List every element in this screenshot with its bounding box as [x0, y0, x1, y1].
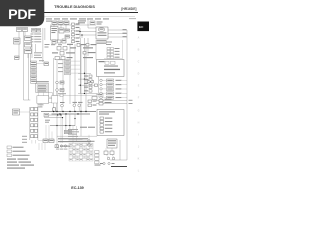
svg-text:A: A — [138, 37, 140, 40]
svg-text:H: H — [138, 122, 140, 125]
svg-text:B: B — [138, 49, 140, 52]
svg-text:G: G — [138, 110, 140, 113]
svg-text:TROUBLE DIAGNOSIS: TROUBLE DIAGNOSIS — [54, 5, 95, 9]
svg-text:PDF: PDF — [8, 7, 36, 23]
svg-text:C: C — [138, 61, 140, 64]
svg-text:K: K — [138, 158, 140, 161]
svg-text:EC-139: EC-139 — [71, 186, 84, 190]
svg-text:EC: EC — [139, 25, 144, 29]
svg-text:[HR16DE]: [HR16DE] — [121, 7, 136, 11]
svg-text:D: D — [138, 73, 140, 76]
